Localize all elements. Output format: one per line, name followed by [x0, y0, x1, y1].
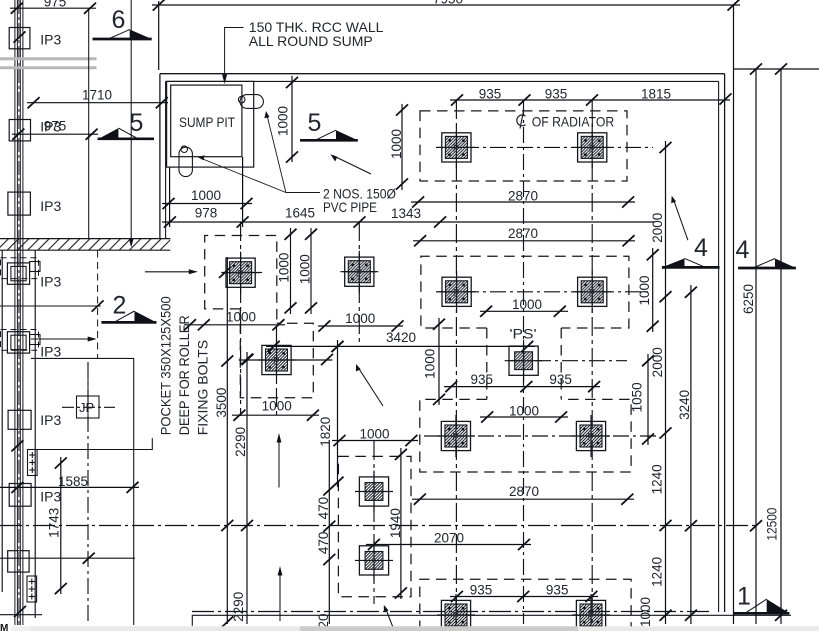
svg-text:1743: 1743 [46, 508, 61, 538]
pad row4 right [572, 415, 610, 457]
dim 1000 left line [184, 324, 285, 326]
pad radiator left [437, 126, 475, 168]
wall tick at pocket leader [11, 440, 23, 451]
dim 975 second line [12, 133, 98, 135]
svg-text:935: 935 [545, 87, 568, 102]
pad bottom right [572, 594, 610, 631]
svg-text:2870: 2870 [508, 189, 538, 204]
column IP3 #7 [9, 484, 61, 507]
bottom left stub line [0, 614, 42, 616]
dim 7950 line [152, 4, 740, 6]
pad column x=374 [373, 441, 375, 604]
pad column x=276.5 [276, 326, 278, 416]
pad column x=359.3 [358, 222, 360, 346]
svg-text:OF RADIATOR: OF RADIATOR [532, 113, 615, 129]
bottom dashed enclosure [420, 579, 631, 631]
dim 1000 below R-l2 right [318, 325, 403, 327]
svg-text:2870: 2870 [509, 484, 539, 499]
grey pipe lines top-left [0, 57, 97, 60]
radiator dashed enclosure R1 [420, 111, 627, 181]
dim 1710 line [27, 102, 168, 104]
dim 2870 #2 line [413, 240, 635, 242]
svg-text:1000: 1000 [638, 597, 653, 627]
svg-text:POCKET 350X125X500: POCKET 350X125X500 [158, 296, 174, 435]
svg-text:7950: 7950 [433, 0, 463, 7]
svg-text:1240: 1240 [649, 464, 664, 494]
dim 2070 line [366, 544, 531, 546]
svg-text:1000: 1000 [512, 297, 542, 312]
arrow to dashed edge [31, 338, 92, 340]
svg-text:M: M [0, 623, 8, 631]
svg-text:935: 935 [470, 582, 493, 597]
svg-text:1000: 1000 [637, 275, 652, 305]
JP column solid segment [87, 378, 89, 420]
svg-text:935: 935 [479, 87, 502, 102]
dim 1000 column374 line [332, 440, 418, 442]
pad small left [258, 339, 296, 381]
pad bottom left [437, 594, 475, 631]
sump pit outer wall [167, 81, 254, 167]
vert ext col733 [733, 5, 735, 624]
boundary inner right [718, 81, 720, 612]
dim 3420 line [266, 345, 535, 347]
svg-text:5: 5 [308, 109, 322, 137]
pvc pipe #1 (top right of sump) [238, 95, 263, 109]
svg-text:1000: 1000 [191, 188, 221, 203]
vert dim col247 (2290) [246, 352, 248, 624]
vert dim col756 [755, 69, 757, 624]
section marker 2 [101, 292, 156, 323]
column dashed enclosure x374 [338, 456, 411, 596]
svg-text:1050: 1050 [630, 382, 645, 412]
svg-text:12500: 12500 [765, 508, 780, 541]
vert dim col691 [690, 285, 692, 624]
svg-text:1000: 1000 [276, 106, 291, 136]
arrow to left pad group [145, 271, 193, 273]
bottom row centreline y=608.3 [192, 611, 710, 613]
column IP3 #6 [8, 410, 61, 429]
svg-text:1585: 1585 [58, 474, 88, 489]
line x=88.7 top [88, 8, 90, 238]
svg-text:ALL ROUND SUMP: ALL ROUND SUMP [249, 33, 373, 49]
left dashed enclosure R-l1 [205, 236, 277, 309]
svg-text:IP3: IP3 [40, 343, 61, 359]
svg-text:1000: 1000 [359, 426, 389, 441]
sump ext line x169 [169, 167, 171, 227]
dim 935/935 bottom line [450, 596, 598, 598]
svg-text:470: 470 [316, 497, 331, 520]
svg-text:2870: 2870 [508, 226, 538, 241]
svg-text:1240: 1240 [649, 557, 664, 587]
dim 935/935 mid line [444, 386, 600, 388]
vert dim col329 (470/470) [328, 440, 330, 624]
pvc pipe leader lines [202, 115, 321, 193]
svg-text:935: 935 [471, 372, 494, 387]
dashed room edge x=97.6 [97, 251, 99, 360]
svg-text:IP3: IP3 [40, 273, 61, 289]
pad row2 right b [573, 271, 611, 313]
column IP3 #4 with dashed pad [1, 258, 62, 290]
svg-text:1710: 1710 [82, 88, 112, 103]
svg-text:FIXING BOLTS: FIXING BOLTS [195, 340, 211, 435]
svg-text:20: 20 [316, 613, 331, 628]
boundary outer left [159, 74, 161, 239]
horizontal line y=306 left [0, 305, 101, 307]
neck between R-l1 and R-l2 [239, 309, 241, 323]
row2 centreline y=291.8 [436, 291, 650, 293]
svg-text:1000: 1000 [423, 349, 438, 379]
column IP3 #8 [8, 551, 29, 572]
svg-text:4: 4 [736, 236, 750, 264]
pad PS [505, 340, 543, 382]
centre column PS (dash-dot) [523, 100, 525, 624]
pad row2 right a [438, 271, 476, 313]
ext line x158 top [158, 1, 160, 70]
bottom diagonal arrow [386, 610, 394, 631]
arrow towards sump [333, 156, 371, 174]
JP pedestal [62, 396, 115, 418]
column IP3 #1 [9, 28, 61, 49]
PS row centreline y=360.7 [508, 360, 627, 362]
pad 3/4 row crosshair y=272 [221, 271, 262, 273]
wall tick [14, 31, 26, 42]
dim 1000 row2 line [480, 310, 568, 312]
svg-text:5: 5 [130, 109, 144, 137]
svg-text:1000: 1000 [345, 311, 375, 326]
row2 dashed enclosure R2 [421, 256, 629, 328]
PS neck dashed edges [486, 328, 488, 399]
row4 dashed enclosure R4 [420, 399, 631, 472]
left dashed enclosure R-l2 [240, 323, 313, 398]
vert dim col666 [665, 141, 667, 624]
hatched wall band [0, 239, 170, 251]
svg-text:PVC PIPE: PVC PIPE [323, 199, 377, 215]
dim chain 978/1645/1343 line [162, 221, 655, 223]
svg-text:1000: 1000 [509, 404, 539, 419]
pad row4 left [437, 415, 475, 457]
pad column A x=456 [455, 100, 457, 624]
svg-text:JP: JP [79, 400, 94, 415]
svg-text:1000: 1000 [277, 253, 292, 283]
up arrow #1 [278, 438, 280, 488]
anchor strip #2 with plus marks [27, 576, 37, 602]
wall tick lower [14, 606, 26, 617]
pad row2-left a [222, 252, 260, 294]
pad column x=240.6 [240, 222, 242, 416]
section marker 4 right [736, 236, 796, 268]
sump ext line x242 [242, 157, 244, 227]
svg-text:2290: 2290 [233, 427, 248, 457]
section marker 6 [93, 6, 152, 39]
svg-text:'PS': 'PS' [510, 327, 537, 342]
DIMTEXT rotated [46, 106, 779, 629]
pvc pipe #2 (bottom left of sump) [179, 146, 192, 177]
svg-text:3240: 3240 [677, 390, 692, 420]
vert dim col439 [438, 318, 440, 405]
boundary inner left [165, 81, 167, 238]
horizontal line y=558 left [0, 557, 135, 559]
section marker 4 left [662, 234, 720, 267]
svg-text:1645: 1645 [285, 206, 315, 221]
rcc wall leader with arrow [225, 28, 244, 79]
svg-text:1000: 1000 [226, 310, 256, 325]
pad7 row line y=360 [239, 359, 333, 361]
dim 1000 pad7 line [232, 414, 319, 416]
pocket leader [35, 438, 153, 449]
svg-text:2000: 2000 [650, 213, 665, 243]
svg-text:3420: 3420 [386, 330, 416, 345]
svg-text:2070: 2070 [434, 531, 464, 546]
arrow down to wall band [130, 0, 132, 243]
svg-text:1000: 1000 [262, 399, 292, 414]
svg-text:DEEP FOR ROLLER: DEEP FOR ROLLER [176, 315, 192, 435]
wall grid line (vertical wall at left, multiple parallel lines) [15, 0, 23, 625]
anchor strip #1 with plus marks [28, 450, 38, 476]
svg-text:IP3: IP3 [40, 198, 61, 214]
row4 centreline y=436 [424, 435, 660, 437]
pad column374 upper [355, 471, 393, 513]
svg-text:935: 935 [549, 372, 572, 387]
svg-text:1940: 1940 [388, 508, 403, 538]
pad radiator right [573, 126, 611, 168]
wall centreline (dash-dot) [18, 0, 20, 625]
vert dim 1000 col402 [401, 104, 403, 190]
svg-text:975: 975 [44, 119, 67, 134]
DIMTEXT horizontal [44, 0, 671, 597]
pad row2-left b [340, 251, 378, 293]
svg-text:1000: 1000 [389, 129, 404, 159]
section marker 1 [733, 583, 789, 614]
svg-text:IP3: IP3 [40, 488, 61, 504]
bottom edge line [192, 615, 791, 626]
pad column374 lower [355, 539, 393, 581]
svg-text:3500: 3500 [214, 388, 229, 418]
svg-text:975: 975 [44, 0, 67, 10]
svg-text:4: 4 [694, 234, 708, 262]
svg-text:1: 1 [737, 583, 751, 611]
arrow middle up-left [359, 368, 384, 406]
vert dim col337 (1820) [337, 340, 339, 487]
vert dim col227 (3500) [226, 257, 228, 624]
column IP3 #2 [9, 119, 61, 141]
svg-text:1000: 1000 [297, 254, 312, 284]
svg-text:2: 2 [113, 292, 127, 320]
svg-text:SUMP PIT: SUMP PIT [179, 114, 235, 130]
column IP3 #5 with dashed pad [1, 330, 62, 360]
sump pit inner wall [171, 85, 242, 157]
vert dim col400 (1940) [400, 448, 402, 599]
dim 935/935/1815 line [450, 99, 730, 101]
svg-text:1815: 1815 [641, 87, 671, 102]
boundary inner top [166, 80, 719, 82]
dim 1585 line [0, 486, 139, 488]
svg-text:470: 470 [316, 532, 331, 555]
dim 2870 #3 line [412, 498, 634, 500]
svg-text:2000: 2000 [650, 347, 665, 377]
vert dim col781 [780, 69, 782, 624]
boundary outer right [724, 74, 726, 612]
section marker 5 left [97, 109, 154, 140]
wall face line x=35 lower [34, 251, 36, 619]
vert dim col60 (1743) [60, 457, 62, 594]
centreline CL symbol [517, 113, 526, 129]
section marker 5 right [300, 109, 358, 140]
svg-text:IP3: IP3 [40, 412, 61, 428]
radiator row centreline y=147.4 [436, 146, 653, 148]
svg-text:1820: 1820 [318, 417, 333, 447]
svg-text:2290: 2290 [231, 592, 246, 622]
up arrow #2 [279, 571, 281, 621]
left grid line x=2 lower [1, 251, 3, 593]
dim 1000 vertical pair line b [310, 228, 312, 314]
arrow near section 4 [674, 201, 688, 240]
dim line y69 top right [734, 68, 819, 70]
dim 1000 sump line [162, 203, 252, 205]
dim 1000 vertical pair line a [290, 228, 292, 314]
svg-text:6250: 6250 [741, 284, 756, 314]
bottom grey taskbar strip [31, 626, 819, 631]
room rectangle left lower [31, 358, 134, 625]
svg-text:935: 935 [546, 582, 569, 597]
boundary outer top [160, 73, 725, 75]
column IP3 #3 [8, 192, 62, 215]
dim 2870 #1 line [411, 201, 635, 203]
vert dim 1000 sump col292 [291, 76, 293, 162]
svg-text:978: 978 [195, 206, 218, 221]
svg-text:1343: 1343 [391, 206, 421, 221]
dim 1000 row4 line [480, 416, 568, 418]
svg-text:6: 6 [112, 6, 126, 34]
vert dim col652 [652, 248, 654, 332]
dim 975 top line [10, 7, 96, 9]
svg-text:IP3: IP3 [40, 32, 61, 48]
pad column B x=592 [591, 100, 593, 624]
JP centre column (dash-dot) [87, 362, 89, 624]
vert dim col648 [647, 354, 649, 445]
long centreline y=525.5 [0, 525, 756, 527]
